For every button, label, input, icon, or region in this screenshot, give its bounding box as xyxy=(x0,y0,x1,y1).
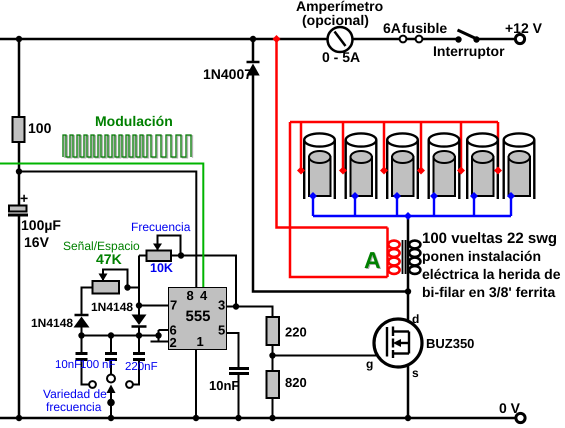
svg-text:2: 2 xyxy=(170,335,177,350)
svg-text:d: d xyxy=(412,312,419,326)
svg-text:100: 100 xyxy=(80,359,99,371)
svg-text:220: 220 xyxy=(285,325,307,340)
svg-text:10nF: 10nF xyxy=(55,359,81,371)
svg-text:1N4007: 1N4007 xyxy=(203,66,252,82)
svg-text:8: 8 xyxy=(187,288,194,303)
svg-text:4: 4 xyxy=(200,288,208,303)
svg-text:Frecuencia: Frecuencia xyxy=(131,220,191,234)
svg-text:3: 3 xyxy=(218,298,225,313)
svg-text:A: A xyxy=(364,247,381,273)
svg-text:s: s xyxy=(412,366,419,380)
svg-text:Modulación: Modulación xyxy=(95,113,173,129)
svg-text:1N4148: 1N4148 xyxy=(91,300,133,314)
svg-text:bi-filar en 3/8' ferrita: bi-filar en 3/8' ferrita xyxy=(422,284,555,300)
svg-text:nF: nF xyxy=(102,359,115,371)
svg-text:100µF: 100µF xyxy=(21,217,61,233)
svg-text:eléctrica la herida de: eléctrica la herida de xyxy=(422,266,561,282)
svg-text:1N4148: 1N4148 xyxy=(31,316,73,330)
svg-text:frecuencia: frecuencia xyxy=(46,400,102,414)
svg-text:ponen instalación: ponen instalación xyxy=(422,248,541,264)
svg-text:7: 7 xyxy=(170,298,177,313)
svg-text:(opcional): (opcional) xyxy=(302,12,369,28)
svg-text:47K: 47K xyxy=(96,251,122,267)
svg-text:Variedad de: Variedad de xyxy=(43,387,107,401)
svg-text:+12 V: +12 V xyxy=(505,20,543,36)
svg-text:g: g xyxy=(366,357,373,371)
svg-text:220nF: 220nF xyxy=(125,361,158,373)
svg-text:0 V: 0 V xyxy=(499,400,521,416)
svg-text:100: 100 xyxy=(28,120,52,136)
svg-text:BUZ350: BUZ350 xyxy=(426,336,474,351)
svg-text:820: 820 xyxy=(285,375,307,390)
svg-text:1: 1 xyxy=(197,334,204,349)
svg-text:fusible: fusible xyxy=(402,20,447,36)
svg-text:6A: 6A xyxy=(383,20,401,36)
svg-text:10nF: 10nF xyxy=(209,378,239,393)
svg-text:555: 555 xyxy=(186,308,211,325)
svg-text:16V: 16V xyxy=(24,234,50,250)
svg-text:5: 5 xyxy=(218,323,225,338)
svg-text:Interruptor: Interruptor xyxy=(433,43,505,59)
svg-text:0 - 5A: 0 - 5A xyxy=(322,49,360,65)
svg-text:10K: 10K xyxy=(150,261,173,275)
svg-text:+: + xyxy=(20,190,28,206)
svg-text:100 vueltas 22 swg: 100 vueltas 22 swg xyxy=(422,230,557,247)
